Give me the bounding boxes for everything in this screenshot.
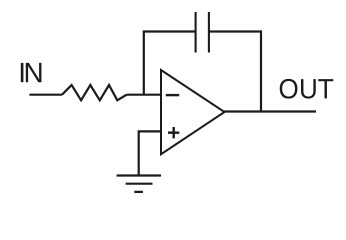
wire feedback right branch — [209, 32, 261, 112]
wire resistor to inverting input — [127, 94, 161, 96]
wire non-inverting input to ground — [139, 131, 161, 175]
wire IN lead — [29, 94, 62, 96]
node IN label — [21, 63, 42, 82]
wire output — [224, 110, 316, 112]
op-amp non-inverting input marker (plus) — [168, 127, 179, 138]
capacitor C1 left plate — [195, 12, 197, 53]
resistor R1 — [62, 85, 127, 100]
capacitor C1 right plate — [208, 12, 210, 53]
ground — [117, 176, 161, 192]
wire feedback left branch — [144, 32, 196, 95]
op-amp inverting input marker (minus) — [166, 94, 179, 96]
node OUT label — [280, 79, 334, 99]
op-amp U1 — [161, 70, 225, 154]
